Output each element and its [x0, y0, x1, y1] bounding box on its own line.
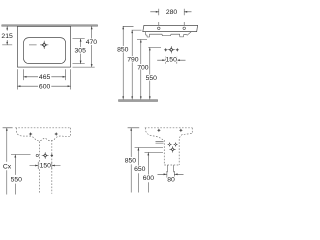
svg-text:Cx: Cx: [3, 163, 12, 170]
dim 80: [158, 171, 184, 178]
fixing hole marks (lower): [157, 128, 161, 132]
svg-text:215: 215: [1, 33, 13, 40]
svg-text:550: 550: [146, 75, 158, 82]
svg-text:280: 280: [166, 9, 178, 16]
dim 280: [150, 9, 191, 26]
svg-text:700: 700: [137, 65, 149, 72]
dim Cx: [3, 128, 13, 195]
bowl bottom contour lines: [156, 141, 164, 143]
dim 850 (side): [123, 26, 134, 99]
svg-text:850: 850: [117, 46, 129, 53]
tap centerline dash: [29, 44, 37, 46]
fixing hole circles: [158, 27, 161, 30]
supply pipes dashed: [39, 141, 41, 193]
dim 150 (front): [30, 162, 61, 169]
dim 790: [132, 30, 142, 99]
drain pipe stubs: [168, 165, 174, 172]
basin right edge dashed: [65, 128, 71, 137]
basin left edge dashed: [16, 128, 20, 136]
basin slab profile: [143, 25, 198, 31]
svg-text:80: 80: [167, 177, 175, 184]
svg-text:150: 150: [166, 57, 178, 64]
basin inner bowl: [24, 38, 66, 64]
dim 215: [2, 26, 12, 45]
right profile dashed: [179, 128, 192, 139]
basin outer rect: [17, 26, 70, 67]
dim 600: [17, 69, 70, 89]
rim dashed (lower side): [145, 127, 193, 129]
dim 600 (lower): [145, 152, 164, 192]
svg-text:550: 550: [11, 177, 23, 184]
bowl underside profile: [145, 32, 191, 37]
svg-text:305: 305: [75, 47, 87, 54]
dim 470: [73, 26, 95, 67]
trap box dashed: [164, 139, 179, 165]
tap symbols row: [164, 48, 168, 52]
svg-text:790: 790: [127, 57, 139, 64]
basin rim dashed: [15, 127, 70, 129]
dim 700: [137, 40, 147, 100]
dim 550 (side): [148, 47, 161, 99]
svg-text:470: 470: [86, 39, 98, 46]
svg-text:465: 465: [39, 74, 51, 81]
drain symbols row: [36, 154, 38, 156]
left profile dashed: [145, 128, 164, 140]
fixing hole marks: [29, 132, 33, 136]
tap symbols cluster: [167, 142, 172, 147]
floor bar (side view): [119, 100, 158, 102]
wall bar: [2, 25, 98, 27]
svg-text:150: 150: [40, 163, 52, 170]
dim 650: [135, 148, 163, 193]
tap hole symbol: [40, 41, 48, 49]
dim 550 (front): [11, 155, 31, 195]
dim 850 (lower): [128, 128, 140, 193]
dim 150 (side): [157, 57, 185, 64]
basin bottom wavy dashed: [20, 136, 65, 141]
svg-text:600: 600: [39, 83, 51, 90]
svg-text:650: 650: [134, 166, 146, 173]
dim 305: [73, 39, 85, 64]
svg-text:850: 850: [125, 158, 137, 165]
dim 465: [24, 69, 66, 80]
svg-text:600: 600: [143, 175, 155, 182]
